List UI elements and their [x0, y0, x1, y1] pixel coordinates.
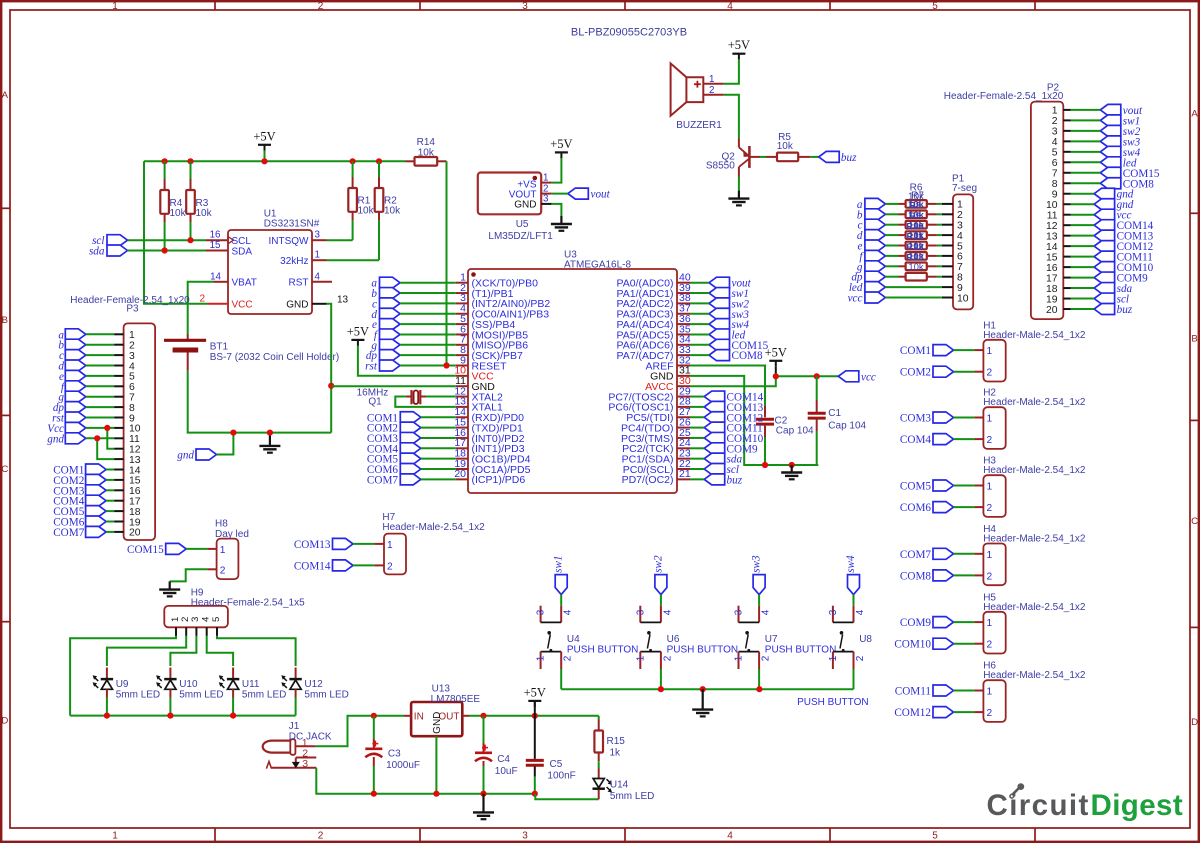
- svg-text:20: 20: [454, 468, 466, 480]
- wire c to R6: [885, 224, 942, 226]
- wire P2 pin10: [1071, 203, 1095, 205]
- svg-text:13: 13: [337, 294, 349, 305]
- svg-text:1k: 1k: [610, 748, 622, 759]
- svg-text:rst: rst: [365, 361, 378, 373]
- svg-text:+5V: +5V: [524, 685, 546, 699]
- svg-text:16: 16: [129, 486, 141, 497]
- svg-text:10k: 10k: [777, 141, 794, 152]
- wire COM2 to U3: [421, 427, 456, 429]
- svg-text:4: 4: [1052, 137, 1058, 148]
- svg-text:U14: U14: [610, 780, 629, 791]
- wire H9 pin5 to U12: [217, 636, 296, 666]
- svg-text:3: 3: [315, 230, 321, 241]
- svg-text:1: 1: [957, 200, 963, 211]
- svg-text:100nF: 100nF: [547, 771, 575, 782]
- svg-text:11: 11: [129, 434, 140, 445]
- wire a to R6: [885, 203, 942, 205]
- wire P3 pin11: [86, 437, 114, 439]
- svg-text:LM35DZ/LFT1: LM35DZ/LFT1: [488, 231, 553, 242]
- resistor R1: [348, 161, 374, 240]
- wire 32kHz to R2: [327, 259, 380, 261]
- junction U9 rail: [104, 713, 110, 719]
- wire COM5 to U3: [421, 458, 456, 460]
- wire b to U3: [400, 292, 456, 294]
- switch U8 push button: [828, 606, 873, 669]
- wire U7 to gnd rail: [758, 669, 760, 689]
- svg-text:R14: R14: [417, 137, 436, 148]
- svg-text:B: B: [1191, 334, 1197, 345]
- svg-text:Header-Male-2.54_1x2: Header-Male-2.54_1x2: [983, 397, 1086, 408]
- wire P2 pin18: [1071, 287, 1095, 289]
- wire U5 VOUT: [552, 193, 568, 195]
- node dp flag (P3 pin8): [53, 402, 86, 415]
- svg-text:COM6: COM6: [900, 502, 931, 514]
- junction RESET R14: [443, 362, 449, 368]
- svg-text:2: 2: [987, 571, 993, 582]
- svg-text:1: 1: [987, 618, 993, 629]
- switch U7 push button: [734, 606, 837, 669]
- wire P3 pin19: [106, 521, 114, 523]
- capacitor C5 100nF: [526, 759, 576, 782]
- svg-text:4: 4: [727, 831, 733, 842]
- wire U3 VCC pin10: [358, 346, 456, 376]
- svg-text:C: C: [1, 464, 8, 475]
- resistor R6 row8: [899, 273, 937, 281]
- connector H8 Day led: [207, 518, 249, 579]
- junction C1 top: [814, 373, 820, 379]
- junction gnd flag: [230, 430, 236, 436]
- svg-text:7: 7: [129, 393, 135, 404]
- svg-text:vcc: vcc: [848, 293, 863, 305]
- junction rail R1: [350, 158, 356, 164]
- wire R5 to buz flag: [810, 156, 818, 158]
- svg-text:BUZZER1: BUZZER1: [676, 120, 722, 131]
- wire P2 pin11: [1071, 214, 1095, 216]
- wire P2 pin14: [1071, 245, 1095, 247]
- ground (H8): [159, 581, 180, 596]
- svg-text:4: 4: [315, 271, 321, 282]
- svg-text:COM2: COM2: [900, 367, 931, 379]
- svg-text:Header-Female-2.54_1x20: Header-Female-2.54_1x20: [944, 91, 1064, 102]
- wire led to P1: [885, 286, 942, 288]
- wire H9 pin2 to U9: [107, 636, 186, 666]
- svg-text:7-seg: 7-seg: [952, 183, 977, 194]
- wire U1 VBAT to battery: [188, 282, 214, 334]
- svg-text:4: 4: [129, 361, 135, 372]
- svg-text:5: 5: [932, 1, 938, 12]
- node sda flag: [89, 245, 128, 258]
- junction scl R3: [187, 237, 193, 243]
- svg-text:Header-Male-2.54_1x2: Header-Male-2.54_1x2: [983, 330, 1086, 341]
- LED U10 5mm: [156, 668, 224, 701]
- connector H3 Header-Male 1x2: [974, 456, 1086, 517]
- junction C2 gnd: [762, 462, 768, 468]
- switch U6 push button: [635, 606, 738, 669]
- wire P3 pin17: [106, 500, 114, 502]
- svg-text:1: 1: [987, 482, 993, 493]
- node COM1 flag (U3): [367, 412, 421, 425]
- node COM4 flag (U3): [367, 443, 421, 456]
- resistor R4: [160, 161, 186, 250]
- node e flag (P1): [858, 240, 886, 253]
- node sw3 flag: [751, 555, 766, 595]
- resistor R6 row6: [899, 252, 937, 260]
- wire sw1 from U3: [690, 292, 709, 294]
- svg-text:Header-Male-2.54_1x2: Header-Male-2.54_1x2: [983, 602, 1086, 613]
- wire COM11 from U3: [690, 427, 704, 429]
- resistor R6 row2: [899, 211, 937, 219]
- svg-text:vcc: vcc: [861, 371, 876, 383]
- +5V supply symbol (main rail): [253, 129, 275, 151]
- wire H6 pin2: [954, 711, 975, 713]
- svg-text:5: 5: [129, 372, 135, 383]
- svg-text:2: 2: [957, 210, 963, 221]
- svg-text:2: 2: [220, 565, 226, 576]
- node g flag (P1): [857, 261, 885, 274]
- svg-text:COM11: COM11: [895, 686, 931, 698]
- wire INTSQW to R1: [327, 239, 353, 241]
- junction C4 top: [480, 713, 486, 719]
- node buz flag (P2 pin20): [1094, 304, 1133, 317]
- svg-text:4: 4: [563, 609, 574, 615]
- svg-text:U10: U10: [179, 679, 198, 690]
- connector H1 Header-Male 1x2: [974, 320, 1086, 381]
- svg-text:1: 1: [112, 1, 118, 12]
- svg-text:U6: U6: [667, 634, 680, 645]
- wire U11 to rail: [232, 698, 234, 716]
- wire sw2 to switch: [660, 595, 662, 606]
- svg-text:RST: RST: [289, 278, 309, 289]
- wire +5V stem C5: [534, 701, 536, 759]
- wire C1 top: [816, 376, 818, 400]
- wire H2 pin2: [954, 438, 975, 440]
- svg-text:3: 3: [536, 609, 547, 615]
- connector J1 DC JACK: [263, 721, 332, 770]
- svg-text:2: 2: [987, 435, 993, 446]
- svg-text:1: 1: [129, 330, 135, 341]
- svg-text:P3: P3: [126, 304, 139, 315]
- wire C2 bottom: [764, 437, 766, 465]
- svg-text:ATMEGA16L-8: ATMEGA16L-8: [564, 260, 631, 271]
- wire P2 pin8: [1071, 182, 1101, 184]
- node COM15 flag (U3 right): [709, 339, 769, 352]
- wire sw1 to switch: [560, 595, 562, 606]
- wire P2 pin6: [1071, 161, 1101, 163]
- wire e to U3: [400, 323, 456, 325]
- svg-text:Header-Male-2.54_1x2: Header-Male-2.54_1x2: [382, 522, 485, 533]
- junction U11 rail: [230, 713, 236, 719]
- svg-text:1: 1: [315, 250, 320, 261]
- wire COM15 from U3: [690, 344, 709, 346]
- node buz flag (Q2): [819, 151, 857, 164]
- svg-text:SCL: SCL: [232, 236, 252, 247]
- wire P3 pin7: [86, 396, 114, 398]
- svg-text:3: 3: [828, 609, 839, 615]
- svg-text:32kHz: 32kHz: [280, 256, 308, 267]
- svg-text:buz: buz: [1117, 304, 1133, 316]
- node COM1 flag (P3): [53, 464, 106, 477]
- svg-text:Cap 104: Cap 104: [776, 425, 814, 436]
- wire buzzer pin2 to Q2: [724, 95, 739, 139]
- svg-text:U13: U13: [432, 684, 451, 695]
- svg-text:PUSH BUTTON: PUSH BUTTON: [567, 645, 639, 656]
- wire sw2 from U3: [690, 302, 709, 304]
- wire AREF to C2: [690, 366, 765, 407]
- svg-text:10k: 10k: [384, 206, 401, 217]
- node COM10 flag (H5): [894, 638, 953, 651]
- node sw4 flag: [845, 555, 860, 595]
- svg-text:GND: GND: [514, 200, 536, 211]
- junction C3 rail: [371, 791, 377, 797]
- wire H4 pin2: [954, 574, 975, 576]
- svg-text:10k: 10k: [908, 262, 924, 273]
- wire COM10 from U3: [690, 437, 704, 439]
- svg-text:S8550: S8550: [706, 161, 735, 172]
- svg-text:sw2: sw2: [652, 555, 664, 573]
- node gnd flag (P2 pin10): [1094, 199, 1134, 212]
- wire C1 bottom: [816, 431, 818, 465]
- svg-text:2: 2: [318, 1, 324, 12]
- node f flag (P3 pin6): [61, 381, 86, 394]
- svg-text:Digest: Digest: [1091, 789, 1184, 822]
- node COM3 flag (H2): [900, 412, 954, 425]
- svg-text:COM14: COM14: [294, 560, 331, 572]
- node gnd flag (P3 pin11): [47, 433, 86, 446]
- node COM7 flag (U3): [367, 474, 421, 487]
- wire U5 +VS to +5V: [552, 158, 562, 182]
- node COM5 flag (H3): [900, 480, 954, 493]
- node COM15 flag (P2 pin7): [1100, 167, 1160, 180]
- wire U10 to rail: [169, 698, 171, 716]
- wire P2 pin2: [1071, 119, 1101, 121]
- svg-text:1: 1: [987, 687, 993, 698]
- wire f to R6: [885, 255, 942, 257]
- svg-text:J1: J1: [289, 721, 300, 732]
- node scl flag (P2 pin19): [1094, 293, 1129, 306]
- capacitor C4 10uF: [475, 716, 518, 777]
- svg-text:12: 12: [129, 445, 141, 456]
- svg-text:U4: U4: [567, 634, 580, 645]
- svg-text:1: 1: [635, 655, 646, 661]
- svg-text:1: 1: [734, 655, 745, 661]
- svg-text:2: 2: [761, 655, 772, 661]
- node c flag (P3 pin3): [59, 350, 86, 363]
- wire H9 pin3 to U10: [170, 636, 196, 666]
- capacitor C2: [756, 406, 814, 437]
- svg-text:5mm LED: 5mm LED: [242, 690, 286, 701]
- node COM14 flag (U3 right): [704, 391, 763, 404]
- svg-text:2: 2: [199, 293, 205, 304]
- node f flag (U3): [374, 329, 400, 342]
- node c flag (U3): [372, 298, 400, 311]
- node sda flag (U3 right): [704, 453, 742, 466]
- LED U14 5mm: [593, 769, 655, 802]
- svg-text:5: 5: [211, 617, 222, 622]
- svg-text:sw1: sw1: [553, 555, 565, 572]
- svg-text:U11: U11: [242, 679, 260, 690]
- svg-text:PUSH BUTTON: PUSH BUTTON: [797, 697, 869, 708]
- wire gnd jog to pin13: [97, 438, 114, 459]
- wire XTAL2: [426, 396, 456, 398]
- svg-text:sw4: sw4: [845, 555, 857, 573]
- wire LED bottom rail: [70, 715, 296, 717]
- resistor R3: [186, 161, 212, 240]
- svg-text:2: 2: [855, 655, 866, 661]
- wire d to R6: [885, 234, 942, 236]
- wire COM7 to U3: [421, 478, 456, 480]
- svg-text:3: 3: [129, 351, 135, 362]
- wire H2 pin1: [954, 417, 975, 419]
- svg-text:Q1: Q1: [368, 397, 382, 408]
- node rst flag (U3): [365, 360, 400, 373]
- title BL-PBZ09055C2703YB: [571, 27, 687, 39]
- svg-text:1: 1: [1052, 106, 1058, 117]
- svg-text:3: 3: [302, 758, 308, 770]
- wire P3 pin2: [86, 344, 114, 346]
- svg-text:buz: buz: [727, 474, 743, 486]
- wire dp to U3: [400, 354, 456, 356]
- node COM11 flag (P2 pin15): [1094, 251, 1153, 264]
- svg-text:4: 4: [957, 231, 963, 242]
- wire P2 pin4: [1071, 140, 1101, 142]
- wire COM12 from U3: [690, 416, 704, 418]
- ground (push buttons): [692, 689, 713, 716]
- svg-text:13: 13: [1046, 231, 1058, 242]
- node vcc flag (P1): [848, 292, 886, 305]
- svg-text:Header-Male-2.54_1x2: Header-Male-2.54_1x2: [983, 534, 1086, 545]
- wire H5 pin2: [954, 643, 975, 645]
- wire P3 pin20: [106, 531, 114, 533]
- wire buzzer pin1 to +5V: [724, 60, 739, 84]
- ground (U3 caps): [781, 465, 802, 479]
- svg-text:2: 2: [318, 831, 324, 842]
- node COM12 flag (H6): [894, 707, 953, 720]
- wire U4 to gnd rail: [560, 669, 562, 689]
- svg-text:10k: 10k: [196, 208, 213, 219]
- svg-text:16: 16: [1046, 263, 1058, 274]
- svg-text:COM7: COM7: [900, 549, 931, 561]
- svg-text:U9: U9: [116, 679, 129, 690]
- svg-text:2: 2: [563, 655, 574, 661]
- wire sw4 from U3: [690, 323, 709, 325]
- node d flag (P3 pin4): [58, 360, 85, 373]
- wire e to R6: [885, 245, 942, 247]
- wire scl from U3: [690, 468, 704, 470]
- wire P3 pin15: [106, 479, 114, 481]
- svg-text:COM5: COM5: [900, 481, 931, 493]
- node b flag (P1): [857, 209, 885, 222]
- svg-text:2: 2: [987, 503, 993, 514]
- svg-text:4: 4: [727, 1, 733, 12]
- svg-text:14: 14: [210, 271, 221, 282]
- svg-text:C4: C4: [497, 754, 510, 765]
- wire U1 GND down: [327, 304, 332, 433]
- svg-text:19: 19: [1046, 294, 1058, 305]
- svg-text:2: 2: [1052, 116, 1058, 127]
- node COM8 flag (H4): [900, 570, 954, 583]
- node g flag (U3): [371, 339, 400, 352]
- wire dp to R6: [885, 276, 942, 278]
- svg-text:17: 17: [129, 497, 141, 508]
- svg-text:A: A: [2, 90, 9, 101]
- wire U9 to rail: [106, 698, 108, 716]
- wire P2 pin12: [1071, 224, 1095, 226]
- wire H4 pin1: [954, 553, 975, 555]
- node COM2 flag (H1): [900, 366, 954, 379]
- svg-text:15: 15: [129, 476, 141, 487]
- node COM9 flag (H5): [900, 617, 954, 630]
- svg-text:DC JACK: DC JACK: [289, 731, 332, 742]
- node vcc flag (AVCC): [838, 371, 876, 384]
- wire P3 pin16: [106, 489, 114, 491]
- connector H6 Header-Male 1x2: [974, 661, 1086, 722]
- svg-text:C3: C3: [388, 749, 401, 760]
- svg-text:U12: U12: [304, 679, 323, 690]
- wire P2 pin3: [1071, 130, 1101, 132]
- svg-text:gnd: gnd: [177, 450, 194, 462]
- svg-text:COM4: COM4: [900, 434, 931, 446]
- resistor R6 row7: [899, 263, 937, 271]
- wire P3 pin10: [86, 427, 114, 429]
- wire P3 pin14: [106, 469, 114, 471]
- node COM15 flag (H8): [127, 543, 186, 556]
- svg-text:A: A: [1191, 109, 1198, 120]
- wire J1 pin3 down: [316, 768, 535, 794]
- svg-text:20: 20: [1046, 305, 1058, 316]
- wire H1 pin2: [954, 371, 975, 373]
- svg-text:21: 21: [679, 468, 691, 480]
- svg-text:10k: 10k: [358, 206, 375, 217]
- svg-text:5: 5: [932, 831, 938, 842]
- node g flag (P3 pin7): [58, 391, 85, 404]
- svg-text:10k: 10k: [170, 208, 187, 219]
- wire H7 pin2: [353, 564, 374, 566]
- svg-text:COM3: COM3: [900, 413, 931, 425]
- connector H2 Header-Male 1x2: [974, 388, 1086, 449]
- svg-text:5: 5: [957, 241, 963, 252]
- svg-text:PUSH BUTTON: PUSH BUTTON: [765, 645, 837, 656]
- svg-text:1: 1: [543, 172, 548, 183]
- wire P3 pin18: [106, 510, 114, 512]
- svg-text:2: 2: [987, 708, 993, 719]
- wire P2 pin15: [1071, 256, 1095, 258]
- buzzer BUZZER1: [671, 63, 724, 131]
- node sw1 flag (U3 right): [709, 288, 749, 301]
- svg-text:Day led: Day led: [215, 529, 249, 540]
- node COM3 flag (U3): [367, 432, 421, 445]
- svg-text:5: 5: [1052, 148, 1058, 159]
- junction U7 rail: [756, 686, 762, 692]
- svg-text:COM9: COM9: [900, 617, 931, 629]
- svg-text:3: 3: [635, 609, 646, 615]
- svg-text:7: 7: [1052, 169, 1058, 180]
- wire f to U3: [400, 333, 456, 335]
- label R6 values: [906, 182, 925, 273]
- svg-text:COM15: COM15: [127, 544, 164, 556]
- wire COM14 from U3: [690, 396, 704, 398]
- svg-text:11: 11: [1047, 211, 1058, 222]
- node b flag (U3): [371, 288, 400, 301]
- svg-text:14: 14: [129, 465, 141, 476]
- junction C3 top: [371, 713, 377, 719]
- LED U12 5mm: [281, 668, 349, 701]
- connector P3 Header-Female 1x20: [70, 295, 190, 540]
- svg-text:IN: IN: [414, 711, 424, 722]
- wire vcc to P1: [885, 297, 942, 299]
- node d flag (P1): [857, 230, 885, 243]
- wire +5V stem to rail: [264, 151, 266, 162]
- svg-text:5mm LED: 5mm LED: [610, 791, 654, 802]
